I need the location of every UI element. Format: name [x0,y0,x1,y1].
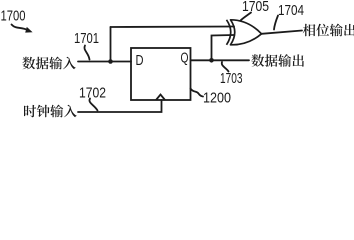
svg-text:1703: 1703 [220,70,243,87]
svg-text:1700: 1700 [1,8,26,25]
label text "数据输出" (data output) [251,54,264,67]
XOR gate U-1705 body [231,20,262,45]
wire: top wire to XOR top input [111,26,235,29]
wire: XOR output line to phase output [262,31,303,34]
leader line for 1704 [274,16,278,30]
label text "相位输出" (phase output) [303,24,316,37]
wire: Q output line [191,59,250,61]
junction dot on Q output line [209,58,214,63]
svg-text:1701: 1701 [74,30,99,47]
clock input triangle [156,95,165,101]
figure pointer arrow under 1700 [12,25,28,31]
leader line for 1701 [84,46,89,60]
leader line for 1705 [241,13,252,21]
leader line for 1703 [222,62,229,72]
svg-text:1704: 1704 [278,2,304,19]
svg-text:D: D [136,53,144,69]
svg-text:Q: Q [181,51,189,67]
leader line for 1702 [89,99,97,111]
svg-text:1200: 1200 [203,90,231,107]
label text "时钟输入" (clock input) [24,105,36,117]
junction dot on data line [108,59,113,64]
label text "数据输入" (data input) [22,57,35,70]
XOR gate U-1705 back arc [227,20,231,45]
wire: clock input line [78,100,162,112]
wire: data input line [78,61,131,63]
svg-text:1705: 1705 [242,0,269,15]
svg-text:1702: 1702 [79,85,106,102]
leader squiggle for 1200 [191,89,204,97]
wire: vertical riser from data line to top wire [110,27,112,62]
wire: riser from Q line to XOR bottom input [212,35,235,60]
arrowhead of figure pointer [25,27,32,33]
D flip-flop U-1200 body [131,48,191,100]
